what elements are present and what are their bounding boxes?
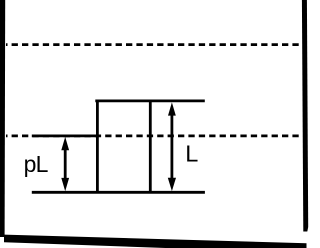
svg-text:L: L [185,141,198,167]
pulse left side [96,100,99,194]
scan border: right black bar [302,0,308,232]
scan border: bottom black bar [4,235,307,248]
scan border: left black bar [0,0,5,237]
solid pL level segment [32,134,99,137]
pulse top line [95,100,205,103]
top dashed reference line [6,43,300,46]
dimension arrow pL (double-headed vertical) [61,137,69,191]
base line [32,191,205,194]
middle dashed reference line (pL level) [6,135,300,138]
svg-text:pL: pL [24,151,49,177]
dimension arrow L (double-headed vertical) [168,102,176,191]
pulse right side [149,100,152,194]
